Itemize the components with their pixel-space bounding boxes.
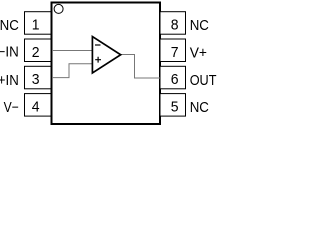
minus sign (inverting input) bbox=[95, 44, 101, 46]
svg-text:V−: V− bbox=[4, 100, 19, 116]
plus sign (non-inverting input) bbox=[95, 57, 101, 63]
wire op-amp output to pin6 bbox=[121, 55, 161, 79]
svg-text:5: 5 bbox=[171, 99, 179, 115]
svg-text:−IN: −IN bbox=[0, 45, 19, 61]
svg-text:7: 7 bbox=[171, 45, 179, 61]
svg-text:NC: NC bbox=[190, 100, 209, 116]
svg-text:2: 2 bbox=[32, 45, 40, 61]
svg-text:4: 4 bbox=[32, 99, 40, 115]
pin-1 indicator circle bbox=[54, 4, 63, 13]
pin 4 box bbox=[25, 94, 52, 117]
pin 2 box bbox=[25, 39, 52, 62]
wire pin3 to non-inverting input (jog up) bbox=[52, 64, 92, 78]
svg-text:3: 3 bbox=[32, 72, 40, 88]
pin 7 box bbox=[160, 39, 186, 62]
wire pin2 to inverting input bbox=[52, 50, 92, 52]
package body U1 (8-pin DIP/SOIC outline) bbox=[52, 3, 161, 125]
pin 3 box bbox=[25, 66, 52, 89]
svg-text:+IN: +IN bbox=[0, 73, 19, 89]
pin 8 box bbox=[160, 12, 186, 35]
pin 5 box bbox=[160, 94, 186, 117]
svg-text:OUT: OUT bbox=[190, 73, 217, 89]
svg-text:NC: NC bbox=[0, 18, 19, 34]
pin 6 box bbox=[160, 66, 186, 89]
svg-text:6: 6 bbox=[171, 72, 179, 88]
svg-text:1: 1 bbox=[32, 18, 40, 34]
svg-text:V+: V+ bbox=[190, 46, 207, 62]
svg-text:8: 8 bbox=[171, 18, 179, 34]
op-amp triangle A1 bbox=[92, 37, 120, 74]
pin 1 box bbox=[25, 12, 52, 35]
svg-text:NC: NC bbox=[190, 18, 209, 34]
